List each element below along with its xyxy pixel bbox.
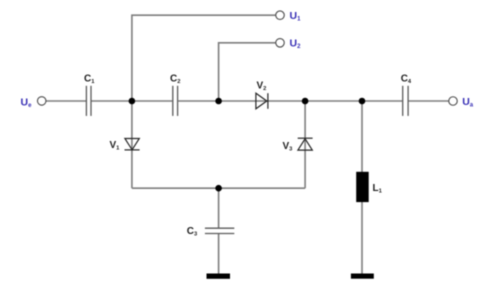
diode V3 (283, 138, 313, 152)
node C (302, 98, 309, 105)
node B (215, 98, 222, 105)
capacitor C4 (401, 73, 412, 116)
terminal U2 (276, 38, 301, 51)
capacitor C2 (170, 73, 180, 116)
wire (361, 101, 363, 172)
ground (207, 274, 231, 279)
wire (178, 100, 402, 102)
wire (46, 100, 86, 102)
wire (132, 15, 276, 101)
terminal Ua (449, 96, 474, 109)
wire (219, 43, 276, 101)
node E (215, 185, 222, 192)
wire (409, 100, 449, 102)
inductor L1 (356, 172, 382, 202)
capacitor C1 (84, 73, 95, 116)
ground (351, 274, 374, 279)
wire (218, 234, 220, 274)
terminal U1 (276, 10, 301, 23)
capacitor C3 (187, 226, 235, 238)
wire (131, 101, 133, 188)
wire (91, 100, 172, 102)
wire (304, 101, 306, 188)
node A (129, 98, 136, 105)
wire (361, 202, 363, 274)
diode V2 (256, 80, 268, 109)
wire (218, 188, 220, 228)
node D (359, 98, 366, 105)
diode V1 (110, 139, 140, 152)
terminal Ue (21, 96, 46, 109)
wire (132, 187, 305, 189)
